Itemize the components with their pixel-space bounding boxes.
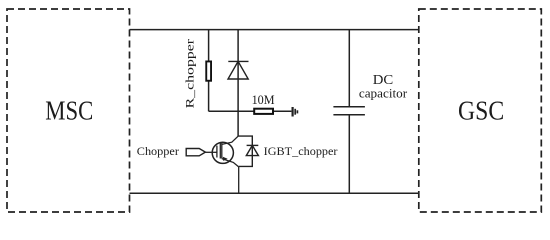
svg-text:GSC: GSC xyxy=(458,95,504,125)
svg-text:MSC: MSC xyxy=(45,95,93,125)
svg-text:capacitor: capacitor xyxy=(359,87,408,101)
svg-text:IGBT_chopper: IGBT_chopper xyxy=(264,146,338,158)
svg-text:DC: DC xyxy=(373,72,394,87)
svg-text:R_chopper: R_chopper xyxy=(185,39,197,109)
svg-text:Chopper: Chopper xyxy=(137,146,179,158)
svg-text:10M: 10M xyxy=(252,93,275,107)
